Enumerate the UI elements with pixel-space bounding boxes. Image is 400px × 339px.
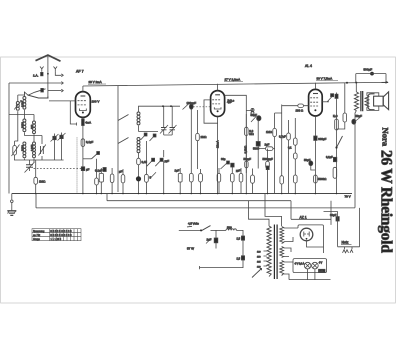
wire R3 legs (96, 159, 98, 194)
tube V1 AF7 envelope (76, 92, 91, 118)
wire link y95 (18, 92, 28, 95)
svg-text:AL 4: AL 4 (305, 64, 312, 68)
svg-text:1,5: 1,5 (237, 237, 241, 241)
svg-text:0,1µF: 0,1µF (326, 155, 333, 159)
coil L2 (20, 97, 26, 110)
svg-text:1µF: 1µF (175, 169, 180, 173)
switch contact arrow 3 (61, 89, 63, 92)
svg-text:50µF: 50µF (356, 114, 363, 118)
capacitor C23 500uF blob (370, 72, 374, 76)
coil L5 (30, 121, 36, 134)
arrow over C11 (150, 172, 156, 178)
antenna (36, 55, 61, 61)
svg-text:0,2MΩ: 0,2MΩ (243, 146, 247, 154)
coil L8 IF1 primary (137, 112, 140, 115)
svg-text:185: 185 (257, 261, 261, 263)
svg-text:MΩ: MΩ (249, 132, 253, 136)
tube V3 grid dashes (310, 97, 318, 99)
wire taps bottom (200, 260, 244, 269)
terminal hook left (40, 67, 44, 72)
capacitor C6 blob (81, 167, 84, 171)
label 80V (316, 77, 338, 81)
wire switch down (28, 95, 48, 98)
svg-text:µµF: µµF (236, 170, 241, 173)
transformer T2 secondary HT (280, 227, 284, 244)
capacitor trimmer C3 blob (51, 134, 59, 142)
wire V3 cathode down (314, 116, 316, 194)
transformer T2 secondary heat2 (280, 261, 284, 276)
resistor R4 (137, 158, 148, 165)
bus second (107, 194, 291, 220)
wire C12 legs (163, 150, 165, 194)
tube V3 pin dot (314, 109, 316, 111)
wire V3 plate top (314, 83, 316, 90)
tube V1 pin dot (82, 112, 84, 114)
wire T1 primary top (355, 83, 357, 92)
wire AZ1 cathode (307, 241, 324, 247)
scan border frame (1, 57, 396, 303)
svg-text:Spannung: Spannung (33, 230, 45, 233)
tube V1 grid2 dashes (78, 104, 86, 106)
capacitor C15 50uF blob (251, 113, 261, 122)
resistor R2 cathode dark (82, 119, 85, 126)
capacitor C20 50uF blob (304, 158, 313, 166)
AZ1 electrodes (304, 232, 309, 237)
resistor R10 (199, 173, 203, 182)
wire colA2 (15, 115, 18, 161)
wire det top link (246, 109, 281, 116)
transformer T1 secondary (365, 96, 369, 107)
svg-text:500: 500 (227, 225, 232, 229)
tube V2 anode (215, 94, 220, 96)
switch S1 contact blob (41, 88, 44, 92)
capacitor C9 blade (141, 133, 148, 140)
wire colC (33, 115, 35, 143)
junction blob (136, 176, 141, 181)
transformer T2 core (274, 225, 277, 280)
svg-text:30µF: 30µF (330, 213, 337, 217)
svg-text:4,5 Volts: 4,5 Volts (188, 222, 199, 226)
tube V3 envelope (309, 89, 323, 116)
capacitor trimmer C2 (39, 145, 46, 156)
dashed AVC link (193, 106, 210, 108)
wire R16 legs (252, 169, 254, 194)
tube V2 envelope (211, 91, 225, 117)
wire y131 link (139, 131, 159, 133)
node dot antenna (47, 73, 49, 75)
svg-text:µF: µF (119, 170, 123, 174)
node dots IF1 (162, 105, 164, 107)
svg-text:µF: µF (86, 168, 90, 172)
resistor R1 (34, 177, 46, 184)
wire band feed vertical (117, 86, 119, 192)
wire V1 grid return (70, 101, 76, 126)
capacitor C5 (81, 139, 93, 147)
resistor R19 grid stopper (296, 104, 304, 113)
capacitor blob top v1 (335, 94, 338, 98)
bus third (36, 194, 355, 208)
wire fuse to taps (236, 230, 243, 236)
capacitor C21 blob (326, 155, 337, 162)
resistor R7 (119, 170, 125, 183)
dashed gang link (34, 168, 85, 170)
resistor R21 (279, 133, 290, 140)
wire right risers (291, 201, 331, 225)
wire colB (23, 92, 25, 136)
wire drop x265 (265, 194, 282, 227)
svg-text:1.A.: 1.A. (33, 73, 39, 77)
transformer T1 primary (354, 92, 358, 111)
wire R5 legs (100, 168, 102, 194)
wire right v1 (336, 93, 338, 194)
variable capacitor C1 tuning (25, 162, 35, 173)
tube V2 pin dot (217, 110, 219, 112)
switch S5 blade (335, 136, 342, 149)
svg-text:0,1µF: 0,1µF (86, 140, 93, 144)
capacitor C18 (263, 157, 274, 170)
svg-text:80 V 7,5mA: 80 V 7,5mA (317, 77, 333, 81)
label 28V 2mA (88, 80, 106, 84)
node dots on bus (35, 193, 337, 195)
switch S2 blade (92, 152, 100, 159)
coil L10 det (251, 109, 254, 112)
wire R8 legs (190, 168, 192, 194)
wire right v2 (344, 83, 346, 113)
wire drop x248 (249, 201, 270, 226)
coil L6 (33, 142, 36, 145)
svg-text:30µ: 30µ (221, 157, 226, 161)
svg-text:Grupp: Grupp (33, 238, 41, 241)
switch contact arrow 2 (61, 82, 63, 85)
label 17V (224, 78, 243, 82)
tube V1 cathode (80, 109, 87, 111)
wire R9 legs (197, 110, 199, 169)
capacitor C22 50uF blob (352, 114, 362, 124)
switch S4 blade (118, 138, 129, 144)
capacitor trimmer C4 blob (58, 133, 66, 141)
node dot (170, 105, 172, 107)
wire V2 cathode down (217, 117, 219, 194)
wire colD (41, 136, 43, 161)
resistor R16 (251, 175, 255, 183)
wire R14 legs (245, 114, 247, 173)
coil L4 (23, 142, 26, 145)
wire C13 leg (190, 109, 192, 168)
wire lamps down (289, 269, 331, 280)
wire R18 legs (281, 105, 283, 194)
resistor R27 (343, 113, 347, 122)
coil L3 (23, 119, 26, 122)
svg-text:1000: 1000 (20, 101, 24, 107)
wire T2 sec leads (284, 228, 298, 280)
resistor R15 (244, 157, 252, 168)
wire taps mid (242, 240, 244, 256)
wire colB bottom (23, 159, 25, 161)
wire antenna lead (47, 56, 49, 97)
wire R4 down junction (138, 165, 140, 194)
svg-text:100 Ω: 100 Ω (296, 109, 304, 113)
resistor R17 (266, 128, 276, 136)
coil L1 antenna trimmer (14, 101, 21, 111)
wire C23 link (356, 74, 386, 83)
wire contact bottom (48, 90, 62, 92)
wire trimmer legs (55, 133, 62, 161)
svg-text:50µµF: 50µµF (244, 157, 252, 161)
node dot bus (355, 82, 357, 84)
svg-text:1,5: 1,5 (237, 257, 241, 261)
wire R1 legs (35, 160, 37, 194)
wire contact stub top (55, 72, 61, 75)
wire R11 legs (218, 168, 220, 194)
capacitor C11 (145, 174, 152, 182)
tube V2 grid2 dashes (212, 103, 220, 105)
capacitor extra blob (103, 168, 106, 172)
capacitor trimmer C8 (169, 125, 177, 134)
capacitor ant coupling (41, 72, 43, 75)
resistor R26 (333, 167, 337, 178)
left frame wire (8, 83, 10, 194)
svg-text:500µF: 500µF (364, 68, 373, 72)
wire to fuse (211, 229, 227, 231)
arrow bus end (386, 81, 389, 84)
capacitor C17 horizontal (265, 143, 274, 151)
terminal hook right (54, 67, 58, 72)
wire col77 (76, 138, 78, 194)
switch S3 blade (118, 115, 129, 121)
wire 1uF legs (179, 168, 181, 194)
svg-text:28 V 2mA: 28 V 2mA (89, 80, 102, 84)
capacitor C26 2uF blob (206, 237, 218, 243)
svg-text:26 W Rheingold: 26 W Rheingold (377, 150, 394, 253)
wire V2 grid left loop (204, 100, 218, 123)
capacitor trimmer C7 (160, 125, 168, 134)
capacitor C12b blade (155, 158, 163, 166)
wire R10 legs (200, 169, 202, 194)
speaker LS cone (383, 92, 388, 110)
resistor R14 (245, 127, 254, 136)
transformer T1 core (361, 91, 363, 111)
svg-text:57 W: 57 W (187, 246, 194, 250)
svg-text:E,O: E,O (333, 114, 337, 118)
wire V2 plate top (217, 84, 219, 91)
wire link y135 (24, 135, 42, 137)
svg-text:120: 120 (257, 251, 261, 253)
mains plug prongs (343, 250, 354, 253)
ground symbol (7, 194, 16, 216)
wire lamp feed (179, 229, 201, 231)
trimmer arrows mid (221, 161, 230, 169)
wire V3 g2 right (322, 101, 329, 103)
wire C18 legs (267, 149, 269, 194)
svg-text:AF 7: AF 7 (76, 70, 84, 74)
switch S1 blade (35, 89, 46, 93)
capacitor C19 300uF blob (314, 136, 327, 141)
tap arrow (252, 269, 262, 278)
wire R27 tail (337, 122, 345, 129)
svg-text:4 V: 4 V (319, 262, 323, 265)
svg-text:12mA: 12mA (215, 141, 219, 148)
svg-text:623: 623 (30, 124, 34, 129)
svg-text:1 1 1 26 6: 1 1 1 26 6 (51, 238, 62, 241)
transformer T2 primary (267, 226, 271, 277)
resistor R12 (231, 173, 235, 182)
tube V3 grid2 dashes (310, 101, 318, 103)
wire T1 primary bottom (355, 111, 356, 208)
ground bus main (12, 193, 352, 195)
capacitor C16 blob 5000 (253, 142, 260, 151)
svg-text:4mA: 4mA (85, 121, 91, 125)
resistor R9 2M (196, 133, 207, 140)
capacitor C10 blade (150, 134, 157, 141)
AZ1 enclosure box (298, 212, 338, 254)
rectifier AZ1 circle (300, 228, 313, 241)
wire link y160 (14, 159, 64, 161)
resistor R24 (294, 175, 298, 183)
svg-text:2MΩ: 2MΩ (201, 135, 207, 139)
svg-text:17 V 2,2mA: 17 V 2,2mA (225, 78, 241, 82)
svg-text:Nora: Nora (380, 128, 390, 147)
resistor R13 (239, 173, 243, 182)
svg-text:300µF: 300µF (318, 137, 326, 141)
svg-text:an Pkt: an Pkt (33, 234, 40, 237)
wire R7 legs (122, 169, 124, 194)
tube V3 grid3 dashes (310, 105, 318, 107)
wire C20 stub (311, 166, 316, 170)
svg-text:220: 220 (257, 266, 261, 268)
wire R17 legs (274, 113, 276, 194)
wire V2 plate to col (225, 95, 247, 193)
resistor R5 (95, 169, 103, 183)
wire tuning cap (29, 160, 31, 171)
resistor R25 (333, 114, 338, 130)
wire S2 (83, 158, 92, 160)
wire V3 grid left (282, 105, 309, 107)
resistor R22 (288, 138, 297, 150)
wire C16 legs (257, 120, 259, 169)
svg-text:4 V 0,6 A: 4 V 0,6 A (295, 262, 305, 265)
wire trimmer legs (164, 106, 173, 135)
voltage table (32, 229, 81, 241)
speaker LS frame (368, 94, 375, 110)
trimmer arrow AVC (327, 94, 334, 102)
wire IF1 top link (139, 106, 181, 158)
resistor R20 (314, 175, 327, 183)
wire link y114 (9, 114, 34, 116)
wire R12 legs (231, 167, 233, 194)
transformer T2 secondary heat1 (280, 247, 284, 258)
dial lamp 1 (304, 262, 311, 269)
AZ1 pin dot (306, 238, 308, 240)
speaker LS magnet (374, 96, 384, 106)
svg-text:1MΩ: 1MΩ (266, 130, 272, 134)
resistor R11 (217, 173, 221, 182)
svg-text:100 V: 100 V (92, 100, 100, 104)
wire to switch (28, 92, 35, 95)
resistor R8 bottom (189, 173, 193, 182)
wire R24 legs (294, 183, 296, 194)
svg-text:AZ 1: AZ 1 (300, 215, 307, 219)
wire T1 sec top (367, 93, 379, 96)
svg-text:P.G.s: P.G.s (228, 99, 235, 103)
svg-text:µµF: µµF (165, 159, 170, 163)
wire plug stubs (345, 247, 353, 250)
switch S6 mains blade (200, 226, 211, 232)
svg-text:8888888888: 8888888888 (50, 233, 72, 237)
coil L7 pill (12, 145, 20, 157)
wire contact mid (9, 82, 62, 84)
label Netz (341, 241, 352, 245)
wire T1 sec bottom (367, 106, 379, 110)
svg-text:0,3A: 0,3A (319, 270, 324, 273)
capacitor C27 30uF (330, 213, 339, 221)
wire C11 legs (145, 141, 147, 194)
tube V3 anode (313, 93, 318, 95)
wire netz right (338, 208, 360, 247)
svg-text:1MΩ: 1MΩ (39, 180, 46, 184)
svg-text:0,1: 0,1 (288, 146, 292, 150)
dial lamp 2 (312, 262, 319, 269)
capacitor C13 electrolytic 100uF (183, 101, 197, 109)
capacitor C12a blade (147, 158, 155, 166)
primary taps (257, 251, 267, 268)
svg-text:150: 150 (257, 256, 261, 258)
wire V1 plate top (82, 86, 84, 92)
wire R21 legs (288, 120, 290, 194)
svg-text:5000Ω: 5000Ω (318, 177, 326, 181)
wire C26 legs (215, 230, 217, 248)
tube V1 grid dashes (78, 100, 86, 102)
svg-text:50µF: 50µF (304, 158, 311, 162)
resistor R23 (294, 153, 298, 159)
node dot bus2 (346, 82, 348, 84)
label 1µF (175, 169, 183, 183)
tube V2 cathode (214, 107, 221, 109)
fuse coil 500 (226, 225, 236, 230)
wire R22 legs (294, 118, 296, 175)
svg-text:2µF: 2µF (265, 143, 270, 147)
capacitor C14 blob (231, 163, 234, 167)
svg-text:70 V: 70 V (345, 194, 351, 198)
resistor R3 (95, 178, 99, 185)
wire R13 legs (240, 168, 242, 194)
resistor R6 (110, 174, 114, 183)
wire colC bottom (33, 159, 35, 163)
wire C17 link (258, 148, 274, 150)
switch contact arrow 1 (61, 74, 63, 77)
wire top bus (83, 82, 388, 86)
tube V2 grid dashes (212, 99, 220, 101)
svg-text:Netz: Netz (342, 241, 349, 245)
coil L9 IF1 secondary (137, 138, 140, 141)
wire R6 legs (111, 168, 113, 194)
wire netz left (337, 212, 339, 247)
capacitor C24 blob (241, 236, 244, 240)
wire colA top (17, 95, 19, 115)
wire V1 grid left (49, 100, 76, 102)
wire V1 cathode down (82, 117, 84, 193)
tube V1 anode (81, 95, 86, 97)
label 0,3A (319, 269, 326, 273)
capacitor C25 blob (241, 256, 244, 260)
lamp box (293, 259, 327, 273)
label 4,5 Volt (187, 222, 199, 227)
svg-text:0,7µF: 0,7µF (279, 135, 286, 139)
resistor R18 (280, 176, 284, 184)
